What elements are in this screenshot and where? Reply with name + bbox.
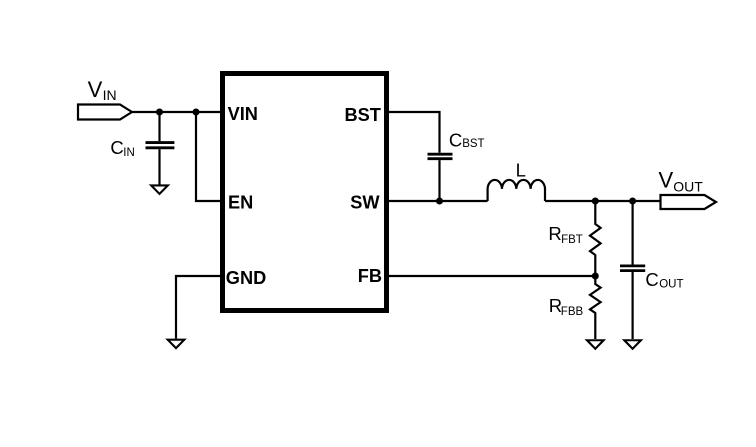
svg-text:SW: SW xyxy=(350,193,380,213)
svg-text:IN: IN xyxy=(103,87,117,103)
svg-text:C: C xyxy=(645,269,658,290)
svg-text:V: V xyxy=(88,77,103,102)
svg-text:FBB: FBB xyxy=(561,306,584,318)
svg-text:V: V xyxy=(659,168,674,193)
svg-text:BST: BST xyxy=(345,105,381,125)
svg-text:FBT: FBT xyxy=(561,234,583,246)
svg-text:BST: BST xyxy=(462,138,484,150)
svg-text:R: R xyxy=(548,223,561,244)
svg-text:EN: EN xyxy=(228,193,253,213)
svg-text:VIN: VIN xyxy=(228,104,258,124)
svg-text:OUT: OUT xyxy=(659,279,683,291)
svg-text:L: L xyxy=(516,160,526,181)
svg-text:GND: GND xyxy=(226,268,266,288)
svg-text:IN: IN xyxy=(123,147,135,159)
svg-text:C: C xyxy=(110,137,123,158)
svg-text:C: C xyxy=(449,129,462,150)
svg-text:OUT: OUT xyxy=(673,179,703,195)
svg-text:FB: FB xyxy=(358,266,382,286)
